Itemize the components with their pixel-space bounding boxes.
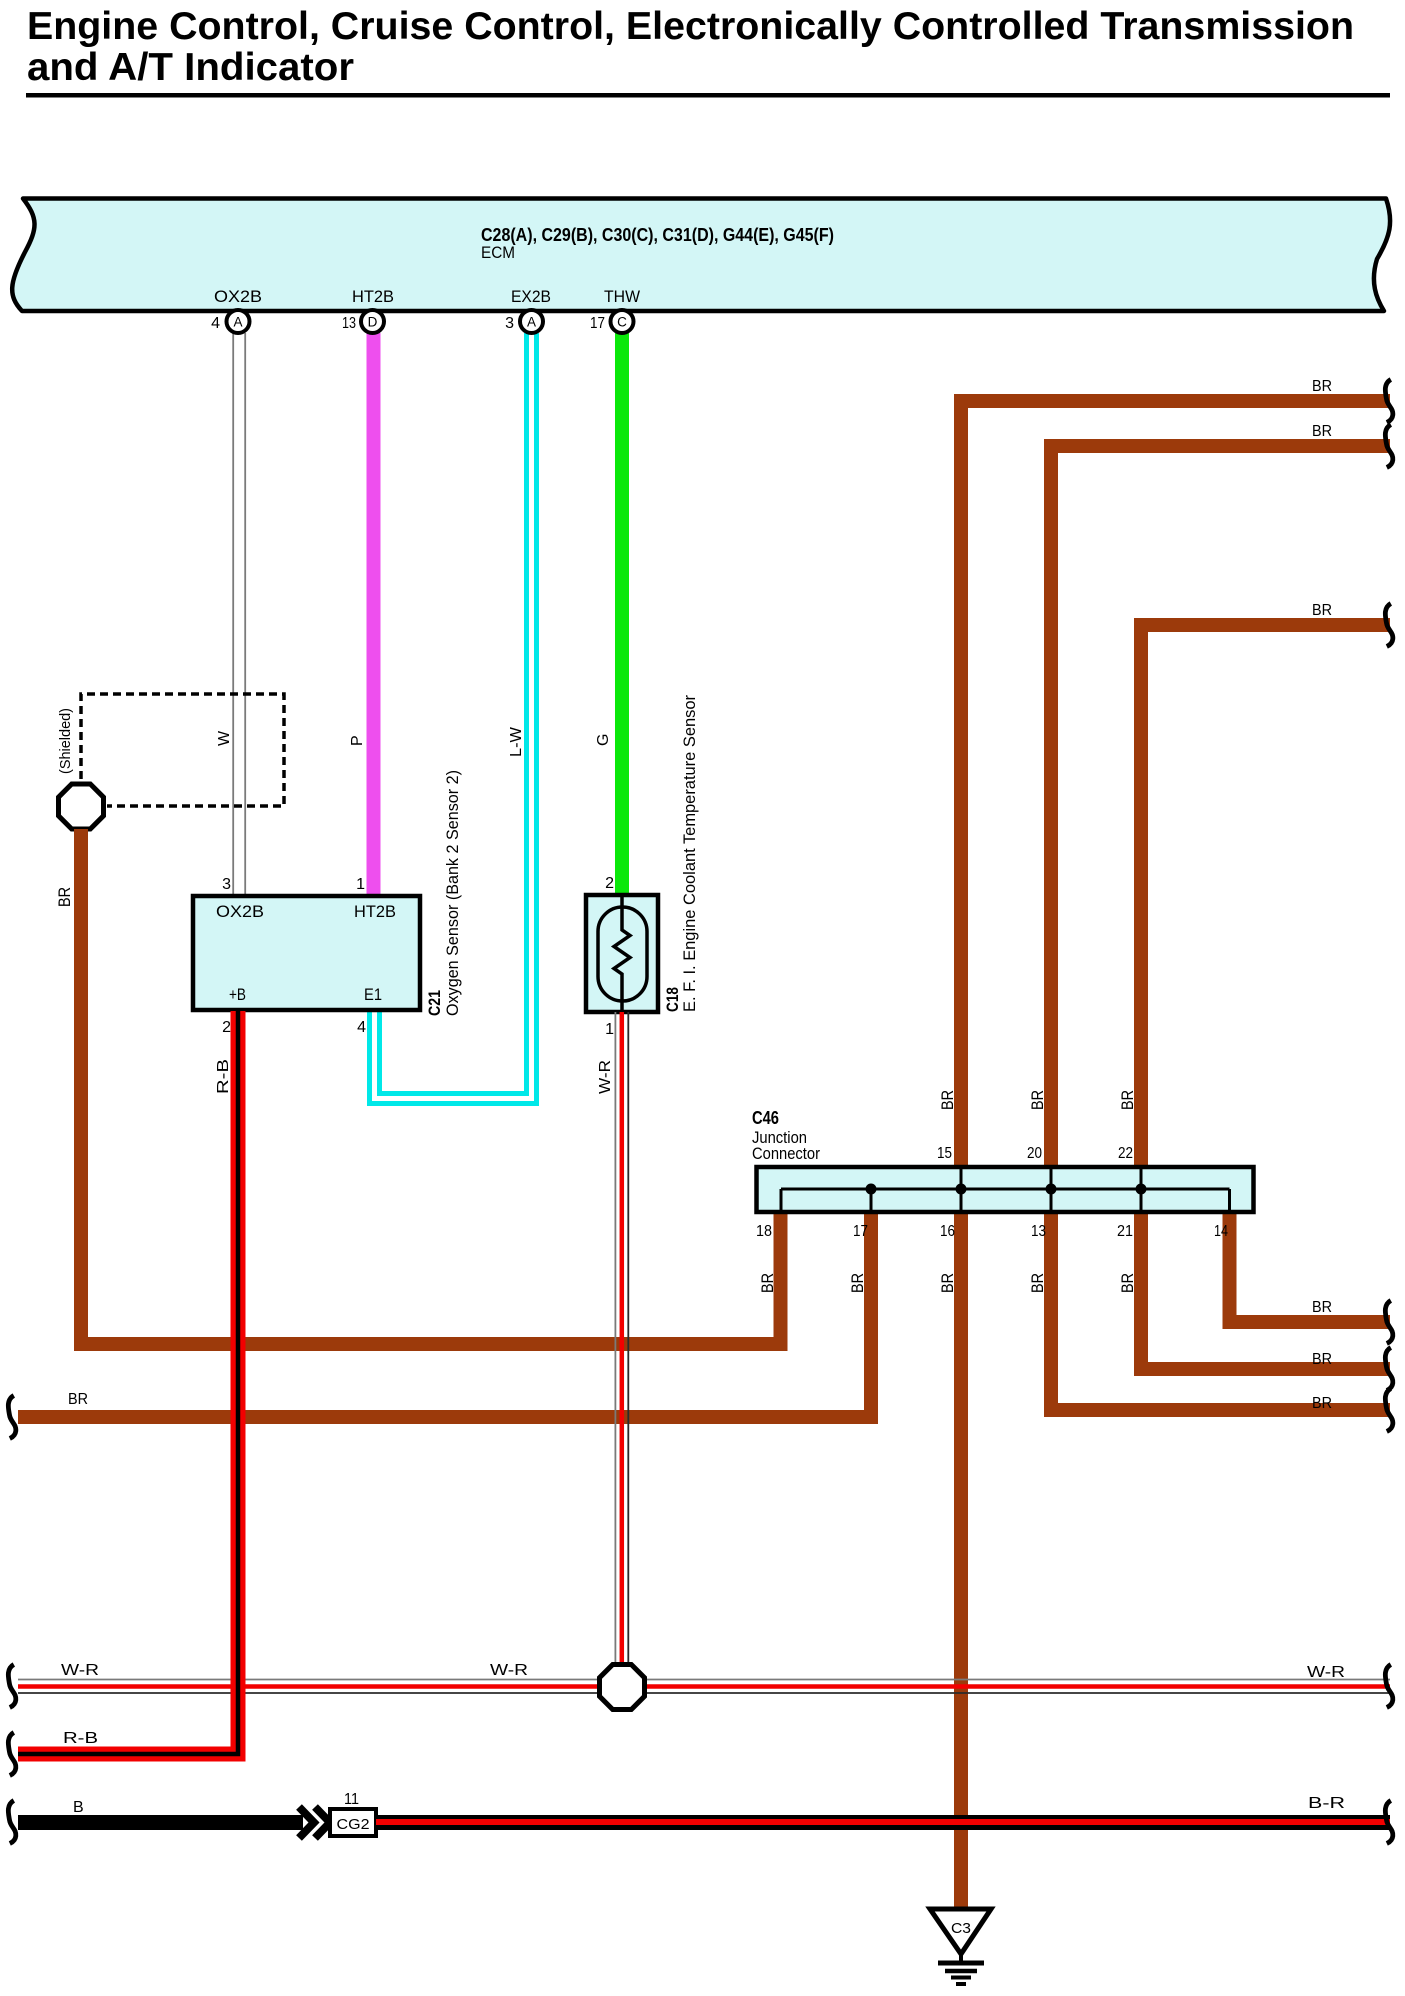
svg-text:21: 21 bbox=[1117, 1223, 1133, 1240]
C46 pin 18 number bbox=[756, 1223, 772, 1240]
label C3 bbox=[951, 1920, 971, 1937]
C21 pin 4 number bbox=[357, 1019, 366, 1036]
break symbol right W-R bbox=[1385, 1665, 1393, 1708]
svg-text:THW: THW bbox=[604, 287, 640, 306]
ECM pin 4 connector circle A bbox=[227, 310, 250, 333]
ECM pin 17 connector circle C bbox=[611, 310, 634, 333]
svg-text:3: 3 bbox=[505, 315, 514, 332]
label BR below C46 pin 18 bbox=[758, 1273, 777, 1293]
CG2 arrow chevron 2 bbox=[315, 1807, 330, 1838]
title text bbox=[27, 5, 1354, 89]
label G bbox=[595, 734, 612, 746]
C21 pin name HT2B bbox=[354, 902, 396, 921]
svg-text:ECM: ECM bbox=[481, 243, 515, 262]
label W-R right bbox=[1307, 1664, 1345, 1681]
svg-text:BR: BR bbox=[1312, 602, 1332, 619]
svg-text:15: 15 bbox=[937, 1145, 952, 1162]
ECM pin name OX2B bbox=[214, 287, 262, 306]
label C21 bbox=[425, 990, 444, 1016]
C46 pin 16 number bbox=[940, 1223, 955, 1240]
svg-text:B: B bbox=[73, 1799, 84, 1816]
wire BR from C46 pin 14 down and right to break bbox=[1230, 1212, 1391, 1322]
label BR above C46 pin 15 bbox=[938, 1090, 957, 1110]
C21 pin name +B bbox=[229, 985, 246, 1004]
svg-text:17: 17 bbox=[853, 1223, 868, 1240]
ECM label C28(A)...G45(F) bbox=[481, 225, 834, 245]
svg-text:BR: BR bbox=[1312, 1299, 1332, 1316]
ECM pin 13 number bbox=[342, 315, 356, 332]
svg-text:3: 3 bbox=[222, 876, 231, 893]
svg-text:HT2B: HT2B bbox=[354, 902, 396, 921]
svg-text:BR: BR bbox=[1312, 1351, 1332, 1368]
label W-R left bbox=[61, 1662, 99, 1679]
ECM pin name THW bbox=[604, 287, 640, 306]
svg-text:W-R: W-R bbox=[61, 1662, 99, 1679]
break symbol right BR wire3 bbox=[1385, 604, 1393, 647]
C46 pin 21 number bbox=[1117, 1223, 1133, 1240]
title underline rule bbox=[26, 93, 1390, 98]
svg-text:W-R: W-R bbox=[1307, 1664, 1345, 1681]
svg-text:18: 18 bbox=[756, 1223, 772, 1240]
svg-text:BR: BR bbox=[1312, 378, 1332, 395]
shielded cable dashed outline bbox=[81, 694, 284, 806]
svg-text:C46: C46 bbox=[752, 1108, 779, 1128]
wire BR from C46 pin 17 down and left to break bbox=[18, 1212, 871, 1417]
wire B-R from CG2 to right break bbox=[376, 1815, 1390, 1831]
break symbol right BR pin21 bbox=[1385, 1348, 1393, 1391]
ECM pin 17 number bbox=[590, 315, 605, 332]
svg-text:W-R: W-R bbox=[597, 1060, 614, 1094]
label (Shielded) bbox=[57, 708, 74, 774]
svg-text:BR: BR bbox=[1118, 1090, 1137, 1110]
label BR below C46 pin 21 bbox=[1118, 1273, 1137, 1293]
label E.F.I. Engine Coolant Temperature Sensor bbox=[680, 695, 699, 1012]
label BR above C46 pin 20 bbox=[1028, 1090, 1047, 1110]
svg-text:C21: C21 bbox=[425, 990, 444, 1016]
wire BR from C46 pin 13 down and right to break bbox=[1051, 1212, 1390, 1410]
label W bbox=[216, 730, 233, 746]
svg-text:W: W bbox=[216, 730, 233, 746]
wire BR from C46 pin 16 down to ground C3 bbox=[954, 1212, 968, 1908]
wire R-B from C21 pin 2 +B down then left to break bbox=[18, 1011, 238, 1754]
svg-text:and A/T Indicator: and A/T Indicator bbox=[27, 46, 354, 89]
svg-text:BR: BR bbox=[938, 1273, 957, 1293]
label BR above C46 pin 22 bbox=[1118, 1090, 1137, 1110]
svg-text:2: 2 bbox=[605, 875, 614, 892]
svg-text:W-R: W-R bbox=[490, 1662, 528, 1679]
C46 junction dot pin 15-16 bbox=[956, 1184, 967, 1195]
svg-text:OX2B: OX2B bbox=[216, 902, 264, 921]
label BR below C46 pin 17 bbox=[848, 1273, 867, 1293]
break symbol right BR wire1 bbox=[1385, 380, 1393, 423]
wire B horizontal from break to CG2 arrow bbox=[18, 1815, 303, 1830]
C21 pin name E1 bbox=[364, 985, 382, 1004]
C46 pin 15 number bbox=[937, 1145, 952, 1162]
C46 junction dot pin 17 bbox=[866, 1184, 877, 1195]
svg-text:4: 4 bbox=[357, 1019, 366, 1036]
svg-text:Engine Control, Cruise Control: Engine Control, Cruise Control, Electron… bbox=[27, 5, 1354, 48]
C21 pin name OX2B bbox=[216, 902, 264, 921]
svg-text:+B: +B bbox=[229, 985, 246, 1004]
svg-text:(Shielded): (Shielded) bbox=[57, 708, 74, 774]
shield ground octagon symbol bbox=[59, 784, 104, 829]
label BR right wire pin21 bbox=[1312, 1351, 1332, 1368]
svg-text:1: 1 bbox=[605, 1021, 614, 1038]
wire P (pink) from ECM HT2B to C21 pin 1 bbox=[367, 333, 381, 896]
break symbol left W-R bbox=[8, 1665, 16, 1708]
C46 internal bus bar bbox=[781, 1169, 1230, 1210]
label B left bbox=[73, 1799, 84, 1816]
label BR right wire 2 bbox=[1312, 423, 1332, 440]
wire BR from shield octagon down-right to C46 pin 18 bbox=[81, 829, 781, 1344]
svg-text:C28(A), C29(B), C30(C), C31(D): C28(A), C29(B), C30(C), C31(D), G44(E), … bbox=[481, 225, 834, 245]
C18 internal stadium outline bbox=[598, 907, 647, 1001]
svg-text:2: 2 bbox=[222, 1019, 231, 1036]
C18 pin 1 number bbox=[605, 1021, 614, 1038]
label P bbox=[349, 735, 366, 746]
C21 pin 1 number bbox=[356, 876, 365, 893]
svg-text:13: 13 bbox=[342, 315, 356, 332]
C46 pin 17 number bbox=[853, 1223, 868, 1240]
ECM pin 4 number bbox=[211, 315, 220, 332]
C46 junction dot pin 20-13 bbox=[1046, 1184, 1057, 1195]
wire G (green) from ECM THW to C18 pin 2 bbox=[615, 333, 629, 896]
svg-text:22: 22 bbox=[1118, 1145, 1133, 1162]
svg-text:P: P bbox=[349, 735, 366, 746]
component C46 Junction Connector box bbox=[757, 1167, 1254, 1212]
ECM label bbox=[481, 243, 515, 262]
svg-text:G: G bbox=[595, 734, 612, 746]
svg-text:OX2B: OX2B bbox=[214, 287, 262, 306]
label L-W bbox=[508, 726, 525, 757]
label R-B vertical bbox=[215, 1059, 232, 1094]
svg-text:Connector: Connector bbox=[752, 1144, 820, 1163]
svg-text:A: A bbox=[527, 315, 536, 330]
svg-text:BR: BR bbox=[1312, 423, 1332, 440]
component C18 box bbox=[586, 895, 658, 1012]
svg-text:E. F. I. Engine Coolant Tempe: E. F. I. Engine Coolant Temperature Sens… bbox=[680, 695, 699, 1012]
svg-text:CG2: CG2 bbox=[337, 1816, 370, 1833]
label Connector bbox=[752, 1144, 820, 1163]
ECM pin 13 connector circle D bbox=[361, 310, 384, 333]
label BR right wire 3 bbox=[1312, 602, 1332, 619]
label BR on shield wire bbox=[55, 887, 74, 907]
label R-B left horizontal bbox=[63, 1730, 98, 1747]
svg-text:13: 13 bbox=[1031, 1223, 1046, 1240]
svg-text:EX2B: EX2B bbox=[511, 287, 551, 306]
wire BR from C46 pin 15 up and right to break bbox=[961, 401, 1390, 1167]
label BR left wire pin17 bbox=[68, 1391, 88, 1408]
break symbol left BR pin17 bbox=[8, 1396, 16, 1439]
break symbol left R-B bbox=[8, 1733, 16, 1776]
wire W (white) from ECM OX2B to C21 pin 3 bbox=[233, 333, 245, 896]
svg-text:C: C bbox=[617, 315, 627, 330]
svg-text:L-W: L-W bbox=[508, 726, 525, 757]
C21 pin 2 number bbox=[222, 1019, 231, 1036]
component C21 Oxygen Sensor box bbox=[193, 896, 420, 1010]
label W-R middle bbox=[490, 1662, 528, 1679]
wire BR from C46 pin 22 up and right to break bbox=[1141, 625, 1390, 1167]
svg-text:C3: C3 bbox=[951, 1920, 971, 1937]
svg-text:B-R: B-R bbox=[1308, 1795, 1345, 1812]
ECM pin 3 number bbox=[505, 315, 514, 332]
wire W-R from C18 pin 1 down to junction octagon bbox=[615, 1012, 628, 1663]
CG2 arrow chevron 1 bbox=[299, 1807, 314, 1838]
break symbol left B bbox=[8, 1801, 16, 1844]
C46 junction dot pin 22-21 bbox=[1136, 1184, 1147, 1195]
label C46 bbox=[752, 1108, 779, 1128]
C18 pin 2 number bbox=[605, 875, 614, 892]
C46 pin 22 number bbox=[1118, 1145, 1133, 1162]
break symbol right BR pin14 bbox=[1385, 1301, 1393, 1344]
label Junction bbox=[752, 1128, 807, 1147]
C46 pin 14 number bbox=[1214, 1223, 1228, 1240]
svg-text:BR: BR bbox=[55, 887, 74, 907]
break symbol right BR wire2 bbox=[1385, 425, 1393, 468]
ECM pin name EX2B bbox=[511, 287, 551, 306]
label B-R right bbox=[1308, 1795, 1345, 1812]
ECM connector box (C28-G45) bbox=[12, 199, 1390, 312]
svg-text:R-B: R-B bbox=[63, 1730, 98, 1747]
svg-text:BR: BR bbox=[1028, 1273, 1047, 1293]
svg-text:HT2B: HT2B bbox=[352, 287, 394, 306]
wire L-W (lightblue-white) from ECM EX2B to C21 pin 4 E1 bbox=[375, 333, 532, 1099]
break symbol right BR pin13 bbox=[1385, 1389, 1393, 1432]
C46 pin 13 number bbox=[1031, 1223, 1046, 1240]
svg-text:R-B: R-B bbox=[215, 1059, 232, 1094]
wire BR from C46 pin 20 up and right to break bbox=[1051, 446, 1390, 1167]
ECM pin 3 connector circle A bbox=[520, 310, 543, 333]
svg-text:A: A bbox=[233, 315, 242, 330]
break symbol right B-R bbox=[1385, 1801, 1393, 1844]
label Oxygen Sensor (Bank 2 Sensor 2) bbox=[443, 770, 462, 1016]
label BR right wire pin13 bbox=[1312, 1395, 1332, 1412]
svg-text:D: D bbox=[368, 315, 378, 330]
label BR right wire pin14 bbox=[1312, 1299, 1332, 1316]
C46 pin 20 number bbox=[1027, 1145, 1042, 1162]
svg-text:BR: BR bbox=[1118, 1273, 1137, 1293]
svg-text:16: 16 bbox=[940, 1223, 955, 1240]
svg-text:1: 1 bbox=[356, 876, 365, 893]
svg-text:Oxygen Sensor (Bank 2 Sensor 2: Oxygen Sensor (Bank 2 Sensor 2) bbox=[443, 770, 462, 1016]
svg-text:20: 20 bbox=[1027, 1145, 1042, 1162]
C21 pin 3 number bbox=[222, 876, 231, 893]
label W-R vertical bbox=[597, 1060, 614, 1094]
svg-text:E1: E1 bbox=[364, 985, 382, 1004]
svg-text:BR: BR bbox=[68, 1391, 88, 1408]
svg-text:BR: BR bbox=[1028, 1090, 1047, 1110]
svg-text:BR: BR bbox=[1312, 1395, 1332, 1412]
wire BR from C46 pin 21 down and right to break bbox=[1141, 1212, 1390, 1369]
ground symbol C3 bbox=[930, 1909, 991, 1984]
label BR below C46 pin 16 bbox=[938, 1273, 957, 1293]
svg-text:4: 4 bbox=[211, 315, 220, 332]
svg-text:11: 11 bbox=[344, 1791, 359, 1808]
svg-text:17: 17 bbox=[590, 315, 605, 332]
CG2 connector box bbox=[330, 1809, 376, 1836]
svg-text:14: 14 bbox=[1214, 1223, 1228, 1240]
ECM pin name HT2B bbox=[352, 287, 394, 306]
svg-text:BR: BR bbox=[848, 1273, 867, 1293]
svg-text:BR: BR bbox=[938, 1090, 957, 1110]
svg-text:BR: BR bbox=[758, 1273, 777, 1293]
wire W-R horizontal bus bbox=[18, 1680, 1390, 1694]
junction octagon on W-R bus bbox=[600, 1665, 645, 1710]
label C18 bbox=[663, 987, 682, 1012]
label BR right wire 1 bbox=[1312, 378, 1332, 395]
label BR below C46 pin 13 bbox=[1028, 1273, 1047, 1293]
C18 thermistor resistor symbol bbox=[614, 897, 630, 1010]
CG2 pin 11 number bbox=[344, 1791, 359, 1808]
